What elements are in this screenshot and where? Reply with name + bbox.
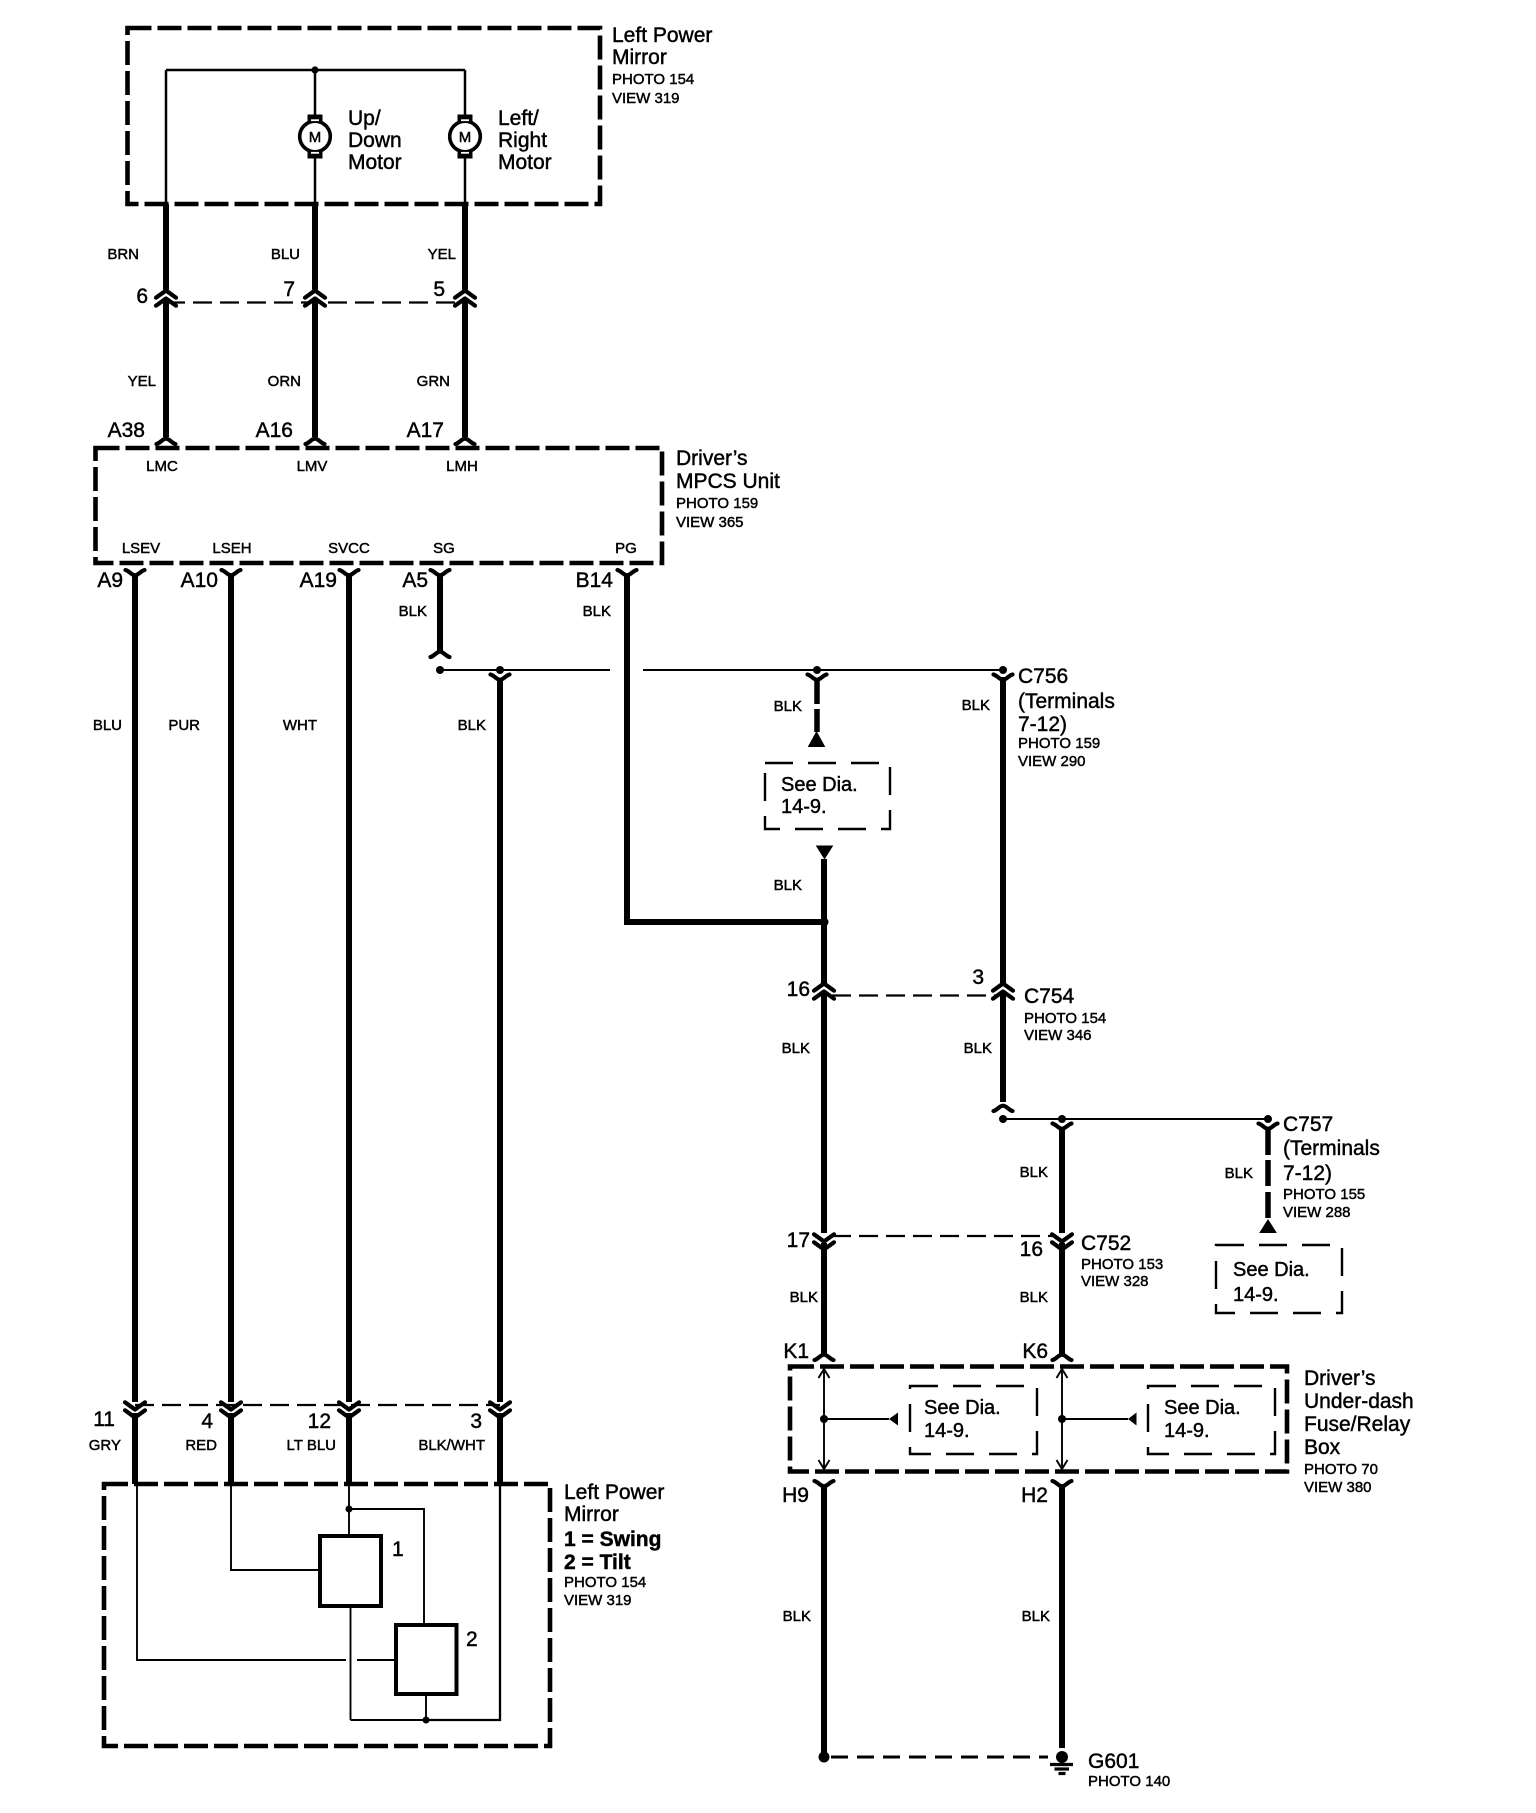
svg-text:PG: PG [615, 540, 637, 557]
svg-text:Box: Box [1304, 1436, 1341, 1459]
svg-text:H2: H2 [1021, 1484, 1048, 1507]
left power mirror switch component box [104, 1484, 550, 1746]
node: dot at switch feed [346, 1506, 353, 1513]
svg-text:GRY: GRY [89, 1437, 121, 1454]
wire: RED branch inside box [231, 1484, 320, 1570]
svg-text:RED: RED [185, 1437, 217, 1454]
connector pin 4 [221, 1402, 241, 1409]
svg-text:A19: A19 [300, 569, 337, 592]
svg-text:BLK: BLK [1020, 1164, 1048, 1181]
terminal flare K1 [815, 1355, 834, 1360]
wire: LT BLU branch to switch 1 [348, 1484, 350, 1536]
wire RED into switch box [228, 1413, 234, 1484]
wire BLK dashed stub to see dia 14-9 [814, 681, 820, 704]
wire YEL to MPCS A38 [163, 301, 169, 438]
switch 2 (tilt) [396, 1625, 457, 1694]
svg-text:Motor: Motor [498, 151, 552, 174]
connector plane dashed line (pins 6,7,5) [166, 301, 465, 303]
node: tap dot on K1-H9 path [820, 1415, 828, 1423]
svg-text:BLK: BLK [1020, 1289, 1048, 1306]
svg-text:LSEH: LSEH [212, 540, 251, 557]
node: splice dot to C752 [1058, 1115, 1066, 1123]
wire BLK C756 drop from ground bus [1000, 677, 1006, 983]
svg-text:VIEW 288: VIEW 288 [1283, 1204, 1351, 1221]
svg-text:VIEW 290: VIEW 290 [1018, 753, 1086, 770]
connector C752 pin 17 [814, 1234, 834, 1241]
wire ORN to MPCS A16 [312, 301, 318, 438]
wire tap to see dia (right) [1062, 1418, 1128, 1420]
svg-text:BLK: BLK [1022, 1608, 1050, 1625]
svg-text:1: 1 [392, 1538, 404, 1561]
arrow into right see dia box [1128, 1413, 1137, 1426]
svg-text:YEL: YEL [428, 246, 456, 263]
wire: up/down motor leads [314, 70, 317, 115]
svg-text:BLK: BLK [783, 1608, 811, 1625]
wire BLK dashed stub C757 [1265, 1130, 1271, 1155]
wire BLK B14 (PG ground) with corner [627, 576, 821, 922]
svg-text:BRN: BRN [107, 246, 139, 263]
svg-text:Driver’s: Driver’s [676, 447, 748, 470]
motor M2 left/right [450, 115, 481, 159]
terminal flare A38 [157, 439, 176, 444]
svg-text:G601: G601 [1088, 1750, 1139, 1773]
svg-text:Right: Right [498, 129, 547, 152]
svg-text:VIEW 319: VIEW 319 [564, 1592, 632, 1609]
svg-text:14-9.: 14-9. [1233, 1284, 1279, 1306]
terminal flare H2 [1053, 1481, 1072, 1486]
svg-text:Mirror: Mirror [564, 1503, 619, 1526]
svg-text:LMV: LMV [297, 458, 328, 475]
node: tap dot on K6-H2 path [1058, 1415, 1066, 1423]
svg-text:Left Power: Left Power [564, 1481, 664, 1504]
svg-text:4: 4 [201, 1410, 213, 1433]
svg-text:YEL: YEL [128, 373, 156, 390]
connector C752 pin 16 [1052, 1234, 1072, 1241]
wire: branch to switch 2 [349, 1509, 424, 1625]
wire: switch 2 output down [425, 1694, 427, 1720]
wire GRN to MPCS A17 [462, 301, 468, 438]
svg-text:BLK: BLK [458, 717, 486, 734]
wire PUR A10 down to connector 4 [228, 576, 234, 1402]
svg-text:A10: A10 [181, 569, 218, 592]
terminal flare C757 [1259, 1124, 1278, 1129]
arrow into left see dia box [889, 1413, 898, 1426]
svg-text:BLK: BLK [962, 697, 990, 714]
connector pin 11 [125, 1402, 145, 1409]
svg-text:A9: A9 [97, 569, 123, 592]
svg-text:LMC: LMC [146, 458, 178, 475]
terminal flare K6 [1053, 1355, 1072, 1360]
terminal flare below splice [491, 675, 510, 680]
wire BLU A9 down to connector 11 [132, 576, 138, 1402]
svg-text:M: M [309, 129, 322, 146]
ground bus thin line (left part) [440, 669, 610, 671]
terminal flare A5 [431, 570, 450, 575]
svg-text:14-9.: 14-9. [781, 796, 827, 818]
svg-text:VIEW 365: VIEW 365 [676, 514, 744, 531]
terminal flare C756 top [994, 675, 1013, 680]
svg-text:BLU: BLU [271, 246, 300, 263]
svg-text:(Terminals: (Terminals [1018, 690, 1115, 713]
wire: GRY branch inside box [137, 1484, 346, 1660]
wire YEL from mirror to connector 5 [462, 204, 468, 290]
svg-text:B14: B14 [576, 569, 614, 592]
svg-text:VIEW 328: VIEW 328 [1081, 1273, 1149, 1290]
terminal flare at A5 splice [431, 652, 450, 657]
svg-text:See Dia.: See Dia. [1164, 1397, 1241, 1419]
wire BLK down to connector 3 [497, 681, 503, 1402]
svg-text:BLK: BLK [782, 1040, 810, 1057]
svg-text:16: 16 [787, 978, 810, 1001]
svg-text:BLK/WHT: BLK/WHT [418, 1437, 485, 1454]
terminal flare A9 [126, 570, 145, 575]
connector pin 3 [490, 1402, 510, 1409]
svg-text:7-12): 7-12) [1283, 1162, 1332, 1185]
svg-text:3: 3 [972, 966, 984, 989]
connector pin 12 [339, 1402, 359, 1409]
wire tap to see dia (left) [824, 1418, 889, 1420]
svg-text:7: 7 [283, 278, 295, 301]
svg-text:BLK: BLK [774, 877, 802, 894]
svg-text:3: 3 [470, 1410, 482, 1433]
svg-text:See Dia.: See Dia. [1233, 1259, 1310, 1281]
wire BLU from mirror to connector 7 [312, 204, 318, 290]
terminal flare A16 [306, 439, 325, 444]
terminal flare A17 [456, 439, 475, 444]
motor M1 up/down [300, 115, 331, 159]
wire: output bus up to BLK/WHT [426, 1484, 500, 1720]
wire BLK C756 pin3 down to splice [1000, 994, 1006, 1103]
connector pin 6 [156, 291, 176, 298]
node: A5 splice dot [436, 666, 444, 674]
terminal flare H9 [815, 1481, 834, 1486]
svg-text:C756: C756 [1018, 665, 1068, 688]
svg-text:BLK: BLK [399, 603, 427, 620]
svg-text:K6: K6 [1022, 1340, 1048, 1363]
svg-text:11: 11 [93, 1408, 115, 1431]
svg-text:LSEV: LSEV [122, 540, 160, 557]
svg-text:6: 6 [136, 285, 148, 308]
wire BLK/WHT into switch box [497, 1413, 503, 1484]
svg-text:16: 16 [1020, 1238, 1043, 1261]
svg-text:12: 12 [308, 1410, 331, 1433]
svg-text:Driver’s: Driver’s [1304, 1367, 1376, 1390]
svg-text:See Dia.: See Dia. [924, 1397, 1001, 1419]
switch 1 (swing) [320, 1536, 381, 1606]
node: junction with B14 ground wire [820, 918, 829, 927]
svg-text:MPCS Unit: MPCS Unit [676, 470, 780, 493]
svg-text:2: 2 [466, 1628, 478, 1651]
internal circuit arrow K1-H9 [823, 1369, 825, 1469]
svg-text:PHOTO 154: PHOTO 154 [612, 71, 694, 88]
svg-text:PHOTO 140: PHOTO 140 [1088, 1773, 1170, 1790]
internal circuit arrow K6-H2 [1061, 1369, 1063, 1469]
svg-text:2 = Tilt: 2 = Tilt [564, 1551, 631, 1574]
svg-text:Left Power: Left Power [612, 24, 712, 47]
terminal flare below splice [1053, 1124, 1072, 1129]
svg-text:PUR: PUR [168, 717, 200, 734]
svg-text:See Dia.: See Dia. [781, 774, 858, 796]
node: ground splice dot [819, 1752, 830, 1763]
see dia 14-9 reference box (C757) [1216, 1245, 1342, 1313]
see dia 14-9 reference box (fuse box right) [1148, 1386, 1275, 1454]
svg-text:14-9.: 14-9. [1164, 1420, 1210, 1442]
wire BLK 17 to K1 [821, 1243, 827, 1354]
svg-text:Under-dash: Under-dash [1304, 1390, 1414, 1413]
wire BLK 16 to 17 [821, 994, 827, 1234]
svg-text:A17: A17 [407, 419, 444, 442]
svg-text:A38: A38 [108, 419, 145, 442]
svg-text:A16: A16 [256, 419, 293, 442]
svg-text:BLK: BLK [1225, 1165, 1253, 1182]
wire: left/right motor leads [464, 70, 467, 115]
svg-text:1 = Swing: 1 = Swing [564, 1528, 661, 1551]
node: splice dot to BLK/WHT wire [496, 666, 504, 674]
svg-text:Left/: Left/ [498, 107, 539, 130]
svg-text:BLK: BLK [790, 1289, 818, 1306]
svg-text:PHOTO 70: PHOTO 70 [1304, 1461, 1378, 1478]
wire: switch 1 output down [350, 1606, 352, 1720]
svg-text:PHOTO 155: PHOTO 155 [1283, 1186, 1365, 1203]
svg-text:PHOTO 159: PHOTO 159 [1018, 735, 1100, 752]
connector plane dashed line (pins 11,4,12,3) [135, 1404, 500, 1406]
connector pin 5 [455, 291, 475, 298]
svg-text:17: 17 [787, 1229, 810, 1252]
driver's under-dash fuse/relay box [790, 1367, 1287, 1472]
wire BRN from mirror to connector 6 [163, 204, 169, 290]
svg-text:C752: C752 [1081, 1232, 1131, 1255]
arrow down from see dia box [816, 846, 834, 860]
svg-text:PHOTO 154: PHOTO 154 [1024, 1010, 1106, 1027]
svg-text:C757: C757 [1283, 1113, 1333, 1136]
terminal flare A19 [340, 570, 359, 575]
svg-text:Mirror: Mirror [612, 46, 667, 69]
wire BLK A5 stub [437, 576, 443, 651]
svg-text:14-9.: 14-9. [924, 1420, 970, 1442]
svg-text:C754: C754 [1024, 985, 1075, 1008]
svg-text:PHOTO 159: PHOTO 159 [676, 495, 758, 512]
wire BLK H2 to ground G601 [1059, 1487, 1065, 1748]
terminal flare A10 [222, 570, 241, 575]
svg-text:ORN: ORN [268, 373, 301, 390]
svg-text:SG: SG [433, 540, 455, 557]
svg-text:PHOTO 153: PHOTO 153 [1081, 1256, 1163, 1273]
wire BLK down to C752 pin 16 [1059, 1130, 1065, 1233]
svg-text:LMH: LMH [446, 458, 478, 475]
svg-text:GRN: GRN [417, 373, 450, 390]
arrow up to see dia box (C757) [1259, 1219, 1277, 1233]
terminal flare B14 [618, 570, 637, 575]
wire BLK from see dia arrow to junction [821, 859, 827, 983]
svg-text:VIEW 380: VIEW 380 [1304, 1479, 1372, 1496]
terminal flare below splice [808, 675, 827, 680]
connector C756 pin 16 [814, 984, 834, 991]
wire BLK 16 to K6 [1059, 1243, 1065, 1354]
see dia 14-9 reference box (upper) [765, 763, 890, 829]
svg-text:BLK: BLK [583, 603, 611, 620]
svg-text:Fuse/Relay: Fuse/Relay [1304, 1413, 1411, 1436]
node: splice dot [999, 1115, 1007, 1123]
svg-text:VIEW 346: VIEW 346 [1024, 1027, 1092, 1044]
wire: top bus inside mirror box [166, 69, 465, 72]
svg-text:7-12): 7-12) [1018, 713, 1067, 736]
node: dot at C756 top [999, 666, 1007, 674]
node: junction at up/down motor branch [311, 66, 318, 73]
svg-text:Up/: Up/ [348, 107, 381, 130]
wire LT BLU into switch box [346, 1413, 352, 1484]
left power mirror component box (top) [128, 28, 601, 204]
svg-text:SVCC: SVCC [328, 540, 370, 557]
wire GRY into switch box [132, 1413, 138, 1484]
svg-text:A5: A5 [402, 569, 428, 592]
connector pin 7 [305, 291, 325, 298]
svg-text:VIEW 319: VIEW 319 [612, 90, 680, 107]
svg-text:Motor: Motor [348, 151, 402, 174]
svg-text:PHOTO 154: PHOTO 154 [564, 1574, 646, 1591]
driver's MPCS unit component box [96, 448, 663, 563]
svg-text:M: M [459, 129, 472, 146]
see dia 14-9 reference box (fuse box left) [910, 1386, 1037, 1454]
svg-text:H9: H9 [782, 1484, 809, 1507]
svg-text:LT BLU: LT BLU [287, 1437, 336, 1454]
connector plane dashed line C752 [832, 1235, 1054, 1237]
dashed ground link [831, 1756, 1048, 1759]
svg-text:BLK: BLK [774, 698, 802, 715]
svg-text:5: 5 [433, 278, 445, 301]
ground bus thin line (right part, hops over B14 wire) [643, 669, 1003, 671]
ground G601 [1050, 1751, 1073, 1774]
lower ground bus thin line [1003, 1118, 1268, 1120]
svg-text:BLU: BLU [93, 717, 122, 734]
terminal flare above lower splice [994, 1106, 1013, 1111]
node: splice dot above see-dia arrow [813, 666, 821, 674]
node: output junction dot [423, 1717, 430, 1724]
wire: output bus to BLK/WHT [351, 1719, 427, 1721]
wire: left branch down inside box [165, 70, 168, 204]
wire BLK H9 to ground splice [821, 1487, 827, 1753]
connector plane dashed line C754 [832, 994, 996, 996]
svg-text:BLK: BLK [964, 1040, 992, 1057]
node: dot at C757 top [1264, 1115, 1272, 1123]
arrow up to see dia box [808, 731, 826, 747]
svg-text:(Terminals: (Terminals [1283, 1137, 1380, 1160]
wire WHT A19 down to connector 12 [346, 576, 352, 1402]
svg-text:K1: K1 [783, 1340, 809, 1363]
svg-text:WHT: WHT [283, 717, 317, 734]
connector C754 pin 3 [993, 984, 1013, 991]
svg-text:Down: Down [348, 129, 402, 152]
